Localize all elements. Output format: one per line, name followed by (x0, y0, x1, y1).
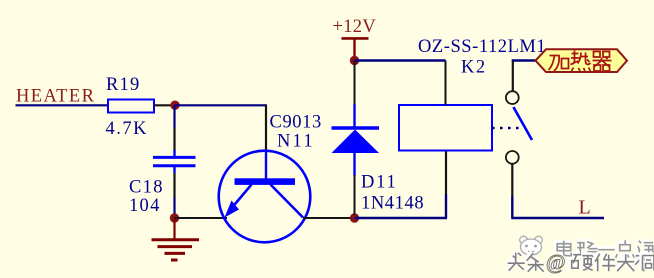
power +12V bar symbol (342, 38, 369, 57)
svg-text:R19: R19 (106, 75, 140, 95)
wire: ground junction to Q1 emitter (175, 217, 228, 219)
resistor R19 (108, 100, 154, 113)
svg-text:K2: K2 (461, 58, 487, 78)
port flag 加热器 (heater) (536, 49, 628, 72)
wire: junction right to relay coil bottom (horizontal) (355, 217, 448, 219)
svg-text:+12V: +12V (333, 17, 377, 37)
wire: HEATER net into R19 (16, 104, 109, 106)
diode D11 (332, 104, 380, 176)
wire: D11 anode to junction (354, 175, 356, 215)
port flag text 加热器 (drawn strokes) (549, 51, 612, 72)
capacitor C18 (153, 150, 196, 173)
watermark logo (cat head) (520, 236, 543, 255)
svg-text:HEATER: HEATER (16, 87, 95, 107)
svg-text:C9013: C9013 (270, 113, 322, 133)
wire: relay coil bottom pin (vertical) (445, 194, 447, 218)
svg-text:C18: C18 (129, 178, 164, 198)
svg-text:OZ-SS-112LM1: OZ-SS-112LM1 (418, 37, 546, 57)
wire: +12V node to relay coil top (355, 59, 446, 61)
junction dot at D11 anode node (350, 213, 359, 222)
relay actuation dotted link (492, 127, 523, 130)
relay switch blade (513, 107, 532, 140)
wire: junction down to C18 (173, 105, 175, 128)
wire: L net horizontal (511, 217, 604, 219)
wire: R19 pin to junction (154, 104, 175, 106)
svg-text:N11: N11 (277, 132, 315, 152)
relay switch contact (top) (506, 91, 519, 104)
svg-text:@: @ (546, 250, 566, 274)
wire: corner down to Q1 base pin (vertical) (265, 104, 267, 152)
svg-text:104: 104 (129, 196, 161, 216)
wire: C18 down to ground junction (173, 173, 175, 197)
svg-text:D11: D11 (361, 173, 398, 193)
svg-text:1N4148: 1N4148 (361, 194, 424, 214)
svg-text:4.7K: 4.7K (106, 119, 149, 139)
junction dot at +12V node (350, 56, 359, 65)
transistor Q1 C9013 (219, 151, 311, 243)
junction dot at ground node (170, 213, 179, 222)
wire: to port flag (512, 59, 536, 61)
watermark text 头条@硬件大不同 (embossed strokes) (507, 252, 652, 271)
wire: top contact pin up (512, 60, 514, 92)
svg-text:L: L (579, 197, 591, 219)
relay coil top pin (445, 61, 447, 106)
ground symbol (152, 218, 200, 260)
wire: junction to Q1 base corner (horizontal) (175, 104, 267, 106)
junction dot at R19 output (170, 101, 179, 110)
wire: Q1 collector to D11 junction (303, 217, 355, 219)
wire: +12V node down to D11 cathode (354, 61, 356, 106)
relay K2 coil box (399, 105, 492, 151)
relay switch contact (bottom) (506, 151, 519, 164)
watermark 同 (embossed strokes) (642, 255, 654, 271)
wire: bottom contact pin down (511, 164, 513, 196)
